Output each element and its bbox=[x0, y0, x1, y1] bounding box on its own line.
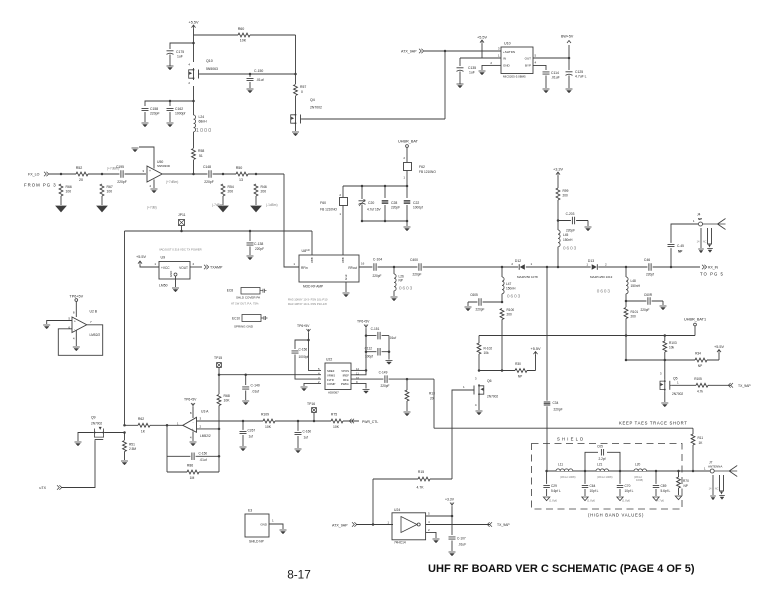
resistor R58 bbox=[191, 149, 196, 160]
resistor R52 bbox=[76, 172, 88, 177]
svg-text:R100: R100 bbox=[507, 308, 515, 312]
wire PWDn to ground bbox=[351, 383, 366, 388]
svg-text:5.6pf L: 5.6pf L bbox=[661, 489, 671, 493]
wire C114 to ground bbox=[545, 76, 547, 89]
wire C64 lower bbox=[584, 489, 586, 496]
svg-text:AT 1W OUT, P.A. 75%: AT 1W OUT, P.A. 75% bbox=[231, 302, 259, 306]
inductor L20 bbox=[634, 468, 647, 472]
svg-text:2N7002: 2N7002 bbox=[487, 395, 498, 399]
capacitor C112 bbox=[376, 347, 381, 356]
wire TP15 to R68 bbox=[218, 375, 220, 394]
wire LO input row bbox=[49, 173, 146, 175]
svg-text:NP: NP bbox=[698, 217, 702, 221]
svg-text:LM50: LM50 bbox=[159, 284, 168, 288]
svg-text:MIC5205-5.0BM5: MIC5205-5.0BM5 bbox=[503, 75, 526, 79]
wire C89 lower bbox=[655, 489, 657, 496]
wire bias rail bbox=[479, 335, 695, 337]
capacitor C400 bbox=[417, 263, 422, 272]
svg-text:KEEP TAES TRACE SHORT: KEEP TAES TRACE SHORT bbox=[619, 421, 688, 426]
node antenna feed bbox=[692, 470, 695, 473]
node C28 top bbox=[384, 185, 387, 188]
svg-text:C267: C267 bbox=[248, 429, 256, 433]
svg-text:+5.5V: +5.5V bbox=[714, 345, 724, 349]
wire to batt ground bbox=[406, 221, 408, 226]
power +5.5V R30 bbox=[534, 352, 538, 356]
svg-text:UHBR_BAT: UHBR_BAT bbox=[398, 140, 419, 144]
wire filter chain bbox=[547, 470, 693, 472]
node R54 bbox=[222, 173, 225, 176]
ground C135 bbox=[457, 83, 464, 85]
wire B+5V down bbox=[568, 45, 570, 58]
op-amp U9 reference body bbox=[159, 262, 190, 280]
wire +5.5V down to Q10 bbox=[193, 29, 195, 62]
node R57 top bbox=[294, 73, 297, 76]
svg-text:JP11: JP11 bbox=[178, 213, 186, 217]
svg-text:MA4P250 1078: MA4P250 1078 bbox=[517, 275, 538, 279]
svg-text:R30: R30 bbox=[515, 362, 521, 366]
ground C605 bbox=[465, 306, 472, 308]
wire R62 row bbox=[125, 424, 183, 426]
svg-text:ANTENNA: ANTENNA bbox=[708, 465, 722, 469]
wire R102 upper bbox=[478, 336, 480, 344]
wire C64 upper bbox=[584, 471, 586, 484]
svg-text:L21: L21 bbox=[597, 463, 603, 467]
capacitor C158 bbox=[141, 107, 149, 112]
ground jack2 top bbox=[698, 248, 704, 250]
wire U10 OUT bbox=[533, 57, 569, 59]
svg-text:U10: U10 bbox=[504, 42, 511, 46]
antenna symbol bottom bbox=[714, 466, 737, 477]
svg-text:R34: R34 bbox=[695, 352, 701, 356]
ground U50 top bbox=[132, 147, 139, 149]
svg-text:C20: C20 bbox=[368, 201, 374, 205]
node L26 bbox=[393, 266, 396, 269]
ground C64 bbox=[582, 497, 588, 501]
wire U10 GND pin bbox=[482, 65, 490, 70]
ground C70 bbox=[617, 497, 623, 501]
svg-text:D13: D13 bbox=[588, 259, 594, 263]
capacitor C135 bbox=[457, 67, 464, 69]
svg-text:C05: C05 bbox=[597, 445, 603, 449]
wire U3A pin3 row bbox=[197, 420, 360, 422]
svg-text:C34: C34 bbox=[553, 401, 559, 405]
wire RF sense keep-short bbox=[434, 427, 693, 429]
ground U2B input bbox=[43, 324, 50, 326]
wire +5.5V to U10 IN bbox=[481, 44, 483, 58]
wire R103 to Q5 bbox=[664, 352, 666, 379]
svg-text:220pF: 220pF bbox=[412, 273, 421, 277]
wire supply to VPOS IREF bbox=[351, 329, 366, 375]
wire ATX to U10 SHTDN bbox=[424, 50, 501, 52]
ground Q9 source bbox=[75, 441, 82, 443]
ground U10 bbox=[479, 70, 486, 72]
wire C175 to ground bbox=[169, 55, 171, 67]
svg-text:NP: NP bbox=[399, 279, 403, 283]
ground R46 bbox=[251, 206, 261, 212]
wire main RF bus bbox=[394, 266, 700, 268]
svg-text:MA4P1250 1013: MA4P1250 1013 bbox=[590, 275, 613, 279]
wire to R51 bbox=[124, 433, 126, 441]
resistor R34 bbox=[695, 358, 707, 363]
wire C89 upper bbox=[655, 471, 657, 484]
svg-text:+5.5V: +5.5V bbox=[530, 347, 540, 351]
ground C158 bbox=[142, 122, 149, 124]
svg-text:NC: NC bbox=[703, 240, 707, 244]
svg-text:.01uf: .01uf bbox=[200, 458, 207, 462]
wire +3.3V down bbox=[557, 176, 559, 188]
wire C203 to ground bbox=[587, 221, 589, 227]
diode D13 bbox=[591, 264, 599, 271]
Q5 body bbox=[664, 379, 666, 391]
svg-text:U2 B: U2 B bbox=[90, 310, 98, 314]
svg-text:R54: R54 bbox=[228, 185, 234, 189]
wire feedback left bbox=[166, 425, 168, 472]
svg-text:C-140: C-140 bbox=[251, 384, 260, 388]
svg-text:C114: C114 bbox=[551, 71, 559, 75]
diode D12 bbox=[518, 264, 526, 271]
capacitor C138 bbox=[246, 241, 254, 246]
svg-text:NP: NP bbox=[684, 484, 688, 488]
svg-text:.01uF: .01uF bbox=[551, 76, 560, 80]
wire Q4 source down bbox=[295, 125, 297, 131]
svg-text:150nH: 150nH bbox=[631, 284, 641, 288]
power +3.3V bbox=[556, 172, 560, 176]
svg-text:VADJUST 0.316 VDC TX POWER: VADJUST 0.316 VDC TX POWER bbox=[159, 248, 202, 252]
wire top to R60 bbox=[194, 34, 296, 36]
svg-text:2N7002: 2N7002 bbox=[672, 392, 683, 396]
capacitor C70 bbox=[616, 484, 624, 489]
wire TP15 down bbox=[218, 368, 220, 375]
wire E3 GND stub bbox=[269, 524, 283, 529]
capacitor C89 bbox=[652, 484, 660, 489]
wire U24 pin2 to ground bbox=[426, 532, 436, 538]
svg-text:R51: R51 bbox=[129, 443, 135, 447]
ground U3A bbox=[190, 441, 197, 443]
resistor R109 bbox=[263, 419, 275, 424]
svg-text:C-151: C-151 bbox=[371, 327, 380, 331]
svg-text:FB 1210NO: FB 1210NO bbox=[419, 170, 436, 174]
ground L26 bbox=[391, 296, 398, 298]
shield E3 body bbox=[245, 514, 269, 537]
wire to C107 bbox=[451, 516, 453, 535]
svg-text:20: 20 bbox=[430, 397, 434, 401]
svg-text:68nH: 68nH bbox=[199, 120, 208, 124]
svg-text:EC8: EC8 bbox=[227, 289, 233, 293]
wire to C175 bbox=[170, 43, 194, 49]
wire +5.5V to U9 bbox=[140, 265, 159, 267]
capacitor C156 bbox=[291, 349, 299, 354]
svg-text:R70: R70 bbox=[683, 479, 689, 483]
ground U24 bbox=[433, 538, 440, 540]
svg-text:C400: C400 bbox=[410, 258, 418, 262]
wire U50 out bbox=[162, 173, 193, 175]
svg-text:L24: L24 bbox=[199, 115, 205, 119]
svg-text:VPOS: VPOS bbox=[341, 369, 349, 373]
capacitor C28 bbox=[381, 199, 389, 205]
Q6 body bbox=[478, 384, 480, 396]
node C138 bbox=[249, 230, 252, 233]
svg-text:0603: 0603 bbox=[563, 246, 577, 251]
connector J4 antenna jack top bbox=[699, 222, 703, 226]
ground batt rail bbox=[404, 226, 411, 228]
op-amp U8 MOD RF AMP body bbox=[299, 255, 359, 282]
svg-text:C135: C135 bbox=[468, 66, 476, 70]
ground R51 bbox=[121, 460, 128, 462]
U50 triangle bbox=[147, 166, 162, 182]
wire C60R row bbox=[626, 300, 663, 302]
node U3A output bbox=[166, 424, 169, 427]
wire C138 to ground bbox=[249, 247, 251, 256]
svg-text:Gnd: Gnd bbox=[344, 274, 348, 280]
svg-text:1M: 1M bbox=[190, 476, 195, 480]
wire ATX to U24 bbox=[356, 524, 393, 526]
resistor R99 bbox=[556, 188, 561, 200]
svg-text:SN5033D: SN5033D bbox=[157, 164, 171, 168]
capacitor C-150 feedback bbox=[190, 452, 195, 461]
node C140 bbox=[244, 373, 247, 376]
svg-text:GND: GND bbox=[260, 523, 268, 527]
svg-text:-: - bbox=[192, 420, 193, 424]
wire R15 row bbox=[373, 478, 452, 480]
svg-text:0603: 0603 bbox=[399, 286, 413, 291]
op-amp U22 AD8367 body bbox=[325, 363, 351, 390]
ground U2B bbox=[73, 346, 80, 348]
svg-text:FX_LO: FX_LO bbox=[28, 173, 40, 177]
wire C20 upper bbox=[361, 186, 363, 199]
ground E3 bbox=[280, 529, 287, 531]
node B bbox=[619, 470, 622, 473]
svg-text:E3: E3 bbox=[248, 509, 252, 513]
svg-text:2.2pf: 2.2pf bbox=[598, 457, 605, 461]
node L45 bottom bbox=[557, 266, 560, 269]
resistor R51 bbox=[122, 441, 127, 452]
power +5.5V U10 bbox=[480, 40, 484, 44]
svg-text:13: 13 bbox=[239, 178, 243, 182]
svg-text:+: + bbox=[192, 428, 194, 432]
node C150 tap bbox=[249, 73, 252, 76]
capacitor C125 bbox=[566, 71, 573, 73]
inductor L21 bbox=[596, 468, 609, 472]
svg-text:150nH: 150nH bbox=[563, 238, 573, 242]
wire to C138 bbox=[249, 231, 251, 241]
wire L47 to C605 node bbox=[501, 294, 503, 302]
svg-text:R109: R109 bbox=[261, 413, 269, 417]
pin U9 GND circle bbox=[174, 273, 177, 276]
capacitor C195 bbox=[119, 170, 124, 179]
wire U24 output bbox=[426, 524, 490, 526]
svg-text:NP: NP bbox=[518, 375, 522, 379]
node Q9 drain bbox=[123, 431, 126, 434]
wire L47 upper bbox=[501, 267, 503, 277]
wire R66 to ground bbox=[60, 196, 62, 205]
wire to C267 bbox=[242, 421, 244, 430]
svg-text:R15: R15 bbox=[418, 470, 424, 474]
ground R70 bbox=[675, 496, 681, 500]
wire R58 to mixer node bbox=[193, 160, 195, 174]
svg-text:(36nH 1008): (36nH 1008) bbox=[597, 475, 613, 479]
ground R13 bbox=[404, 411, 411, 413]
node mixer out bbox=[192, 173, 195, 176]
svg-text:Q9: Q9 bbox=[91, 416, 96, 420]
ground jack3 bottom bbox=[719, 495, 725, 497]
node R62 row bbox=[123, 424, 126, 427]
wire U8 RFout bbox=[359, 266, 394, 268]
node C267 bbox=[242, 420, 245, 423]
node Q5 drain bbox=[664, 359, 667, 362]
node C605 bbox=[501, 301, 504, 304]
svg-text:10K: 10K bbox=[333, 425, 340, 429]
inductor L47 bbox=[502, 277, 506, 294]
wire R34 row bbox=[626, 359, 719, 361]
svg-text:10pf L: 10pf L bbox=[590, 489, 599, 493]
svg-text:ATX_9AP: ATX_9AP bbox=[332, 524, 348, 528]
wire U50 bottom pin bbox=[153, 180, 155, 189]
wire R60 right leg down bbox=[295, 35, 297, 84]
svg-text:1000: 1000 bbox=[196, 128, 212, 134]
wire RX to antenna jack bbox=[671, 224, 698, 267]
svg-text:200: 200 bbox=[631, 315, 637, 319]
node batt rail right bbox=[406, 185, 409, 188]
svg-text:1uf: 1uf bbox=[304, 436, 309, 440]
wire feedback R branch bbox=[167, 471, 219, 473]
ground Q6 bbox=[476, 410, 483, 412]
svg-text:4.7uF L: 4.7uF L bbox=[575, 75, 587, 79]
svg-text:16: 16 bbox=[361, 262, 365, 266]
node C20 top bbox=[361, 185, 364, 188]
resistor R68 bbox=[217, 395, 222, 406]
svg-text:51: 51 bbox=[199, 154, 203, 158]
wire to C158 C162 bbox=[145, 101, 194, 106]
wire feedback right bbox=[218, 429, 220, 472]
svg-text:AD8367: AD8367 bbox=[328, 391, 339, 395]
node C156 tap bbox=[307, 339, 310, 342]
svg-text:R50: R50 bbox=[236, 166, 243, 170]
wire C267 to ground bbox=[242, 435, 244, 446]
svg-text:1008): 1008) bbox=[636, 478, 643, 482]
svg-text:1000pf: 1000pf bbox=[175, 112, 185, 116]
node C175 tap bbox=[192, 42, 195, 45]
svg-text:RA3 10P3Y 10-3- P2N P10-1/8: RA3 10P3Y 10-3- P2N P10-1/8 bbox=[288, 302, 327, 306]
svg-text:+5.5V: +5.5V bbox=[136, 255, 146, 259]
svg-text:PWR_CTL: PWR_CTL bbox=[362, 420, 378, 424]
wire JP11 down bbox=[181, 226, 183, 232]
svg-text:C158: C158 bbox=[150, 107, 158, 111]
capacitor C203 bbox=[571, 216, 576, 225]
svg-text:10K: 10K bbox=[265, 425, 272, 429]
wire TP16 down bbox=[313, 413, 315, 422]
ground COMP bbox=[301, 386, 308, 388]
svg-text:20: 20 bbox=[79, 178, 83, 182]
svg-text:100pf: 100pf bbox=[365, 355, 373, 359]
ground C160 bbox=[295, 448, 302, 450]
svg-text:10k: 10k bbox=[669, 346, 675, 350]
ground C29 bbox=[543, 497, 549, 501]
node JP11 bbox=[180, 230, 183, 233]
svg-text:FB 1210NO: FB 1210NO bbox=[320, 208, 337, 212]
connector RX_IN to PG5 bbox=[702, 265, 707, 270]
wire C05 bridge left bbox=[585, 452, 598, 471]
svg-text:L47: L47 bbox=[506, 282, 512, 286]
wire batt rail ground bus bbox=[362, 220, 407, 222]
wire C151 row bbox=[366, 335, 389, 337]
wire Q10 gate to R57 node bbox=[200, 73, 296, 75]
ground U8 bbox=[343, 292, 350, 294]
node C112 tap bbox=[365, 350, 368, 353]
capacitor C148 bbox=[207, 170, 212, 179]
svg-text:R99: R99 bbox=[563, 189, 569, 193]
svg-text:(1.8pf): (1.8pf) bbox=[549, 499, 557, 503]
ground C60R bbox=[660, 305, 667, 307]
node R101 cross bbox=[625, 334, 628, 337]
svg-text:C-107: C-107 bbox=[457, 537, 466, 541]
svg-text:TX_9AP: TX_9AP bbox=[497, 523, 510, 527]
svg-text:C70: C70 bbox=[625, 484, 631, 488]
svg-text:+VCC: +VCC bbox=[161, 266, 170, 270]
wire C112 row bbox=[366, 351, 389, 353]
wire C203 row bbox=[558, 220, 588, 222]
wire U9 GND down bbox=[175, 276, 177, 287]
wire L26 to ground bbox=[393, 291, 395, 296]
svg-text:SHILD NP: SHILD NP bbox=[249, 540, 264, 544]
wire up to R15 bbox=[372, 479, 374, 525]
ground C203 bbox=[585, 226, 592, 228]
capacitor C162 bbox=[166, 107, 174, 112]
svg-text:(-7dBm): (-7dBm) bbox=[212, 203, 224, 207]
ground C175 bbox=[167, 65, 174, 67]
svg-text:L11: L11 bbox=[558, 463, 563, 467]
resistor R66 bbox=[59, 184, 64, 196]
resistor R15 bbox=[418, 477, 430, 482]
capacitor C-140 bbox=[242, 385, 250, 390]
wire C70 lower bbox=[619, 489, 621, 496]
svg-text:5.6pf L: 5.6pf L bbox=[551, 489, 561, 493]
svg-text:C125: C125 bbox=[575, 70, 583, 74]
ground C150 bbox=[247, 88, 254, 90]
svg-text:1uF: 1uF bbox=[469, 71, 475, 75]
resistor R105 bbox=[696, 383, 708, 388]
capacitor C104 bbox=[372, 263, 377, 272]
wire R70 upper bbox=[678, 471, 680, 477]
svg-text:C605: C605 bbox=[470, 293, 478, 297]
svg-text:220pF: 220pF bbox=[372, 274, 381, 278]
svg-text:10: 10 bbox=[306, 248, 310, 252]
wire C70 upper bbox=[619, 471, 621, 484]
svg-text:NP: NP bbox=[698, 364, 702, 368]
svg-text:C195: C195 bbox=[116, 165, 124, 169]
node R67 bbox=[101, 173, 104, 176]
wire jack top pin2 stub bbox=[700, 228, 702, 248]
wire to C135 bbox=[459, 58, 461, 66]
wire Q6 gate bbox=[452, 390, 475, 394]
wire jack bottom pin2 stub bbox=[712, 475, 714, 495]
capacitor C-149 bbox=[383, 375, 388, 384]
ground U50 bbox=[151, 188, 158, 190]
resistor R54 bbox=[221, 184, 226, 196]
svg-text:C-138: C-138 bbox=[254, 242, 263, 246]
wire C125 to ground bbox=[568, 76, 570, 89]
svg-text:C-156: C-156 bbox=[299, 348, 308, 352]
svg-text:ATX_9AP: ATX_9AP bbox=[401, 50, 417, 54]
ground C140 bbox=[242, 400, 249, 402]
wire COMP to ground bbox=[304, 383, 321, 386]
svg-text:SPRING GND: SPRING GND bbox=[234, 325, 254, 329]
connector TX_9AP right bbox=[728, 383, 733, 388]
svg-text:2N7002: 2N7002 bbox=[310, 106, 322, 110]
svg-text:(HIGH BAND VALUES): (HIGH BAND VALUES) bbox=[588, 513, 644, 518]
wire C28 lower bbox=[384, 205, 386, 221]
wire UHBR_BAT down bbox=[406, 148, 408, 163]
wire sense corner down bbox=[433, 379, 435, 428]
